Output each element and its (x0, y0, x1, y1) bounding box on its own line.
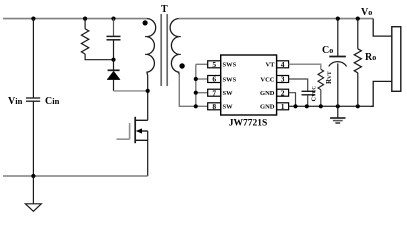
wire diode anode lead (113, 80, 115, 91)
connector output port (392, 27, 401, 92)
capacitor Cin (26, 98, 40, 101)
op-amp U1 IC JW7721S body (221, 55, 277, 115)
wire connector bottom to gnd rail (370, 81, 391, 106)
capacitor C snubber (107, 36, 121, 39)
node junction bus pin6 (194, 77, 198, 81)
wire pin2 down to gnd rail (289, 93, 296, 107)
svg-text:4: 4 (281, 60, 285, 69)
capacitor Co polarized (329, 57, 347, 67)
wire SW bus vertical (195, 64, 197, 106)
svg-text:Ro: Ro (365, 52, 376, 63)
wire CVCC bottom lead (307, 95, 309, 106)
wire stub pin5 (196, 63, 208, 65)
pin 7 box (208, 89, 221, 96)
resistor Ro (354, 49, 361, 73)
pin 4 box (277, 61, 289, 68)
wire pin3 to CVCC (289, 79, 308, 91)
wire secondary bottom descent (179, 74, 196, 106)
svg-text:JW7721S: JW7721S (229, 118, 268, 128)
node polarity dot primary (143, 20, 148, 25)
wire stub pin6 (196, 78, 208, 80)
wire snubber R top lead (84, 19, 86, 29)
ground primary (25, 176, 41, 211)
node junction Co top (336, 17, 340, 21)
node junction snubber C on top rail (111, 17, 115, 21)
transformer T secondary winding (170, 19, 181, 75)
node junction Co gnd (336, 104, 340, 108)
node polarity dot secondary (179, 63, 184, 68)
wire primary bottom to switch node (147, 75, 149, 120)
transformer T primary winding (145, 19, 156, 76)
capacitor CVCC (302, 91, 316, 95)
wire Co top lead (337, 19, 339, 56)
node junction bottom rail Cin (31, 174, 35, 178)
node junction RC (111, 58, 115, 62)
diode D clamp (107, 70, 120, 79)
wire GND rail right (289, 105, 371, 107)
wire Ro bottom lead (357, 73, 359, 107)
pin 1 box (277, 103, 289, 110)
wire RVT bottom lead (320, 90, 322, 107)
wire top rail left (Vin+ to transformer primary) (3, 18, 147, 20)
node junction Ro top (356, 17, 360, 21)
svg-text:1: 1 (281, 102, 285, 111)
svg-text:SWS: SWS (223, 76, 237, 83)
wire Cin branch lower (32, 102, 34, 176)
svg-text:VCC: VCC (260, 76, 274, 83)
svg-text:Cin: Cin (45, 96, 60, 107)
svg-text:6: 6 (212, 75, 216, 84)
wire stub pin7 (196, 92, 208, 94)
svg-text:2: 2 (281, 88, 285, 97)
node junction pin2 gnd (293, 104, 297, 108)
wire diode to switch node (114, 90, 148, 92)
wire snubber C top lead (113, 19, 115, 36)
transformer core (161, 14, 167, 86)
node junction Cin on top rail (31, 17, 35, 21)
node junction bus pin8 (194, 104, 198, 108)
node junction bus pin7 (194, 91, 198, 95)
svg-text:5: 5 (212, 60, 216, 69)
svg-text:8: 8 (212, 102, 216, 111)
pin 6 box (208, 76, 221, 83)
wire bottom rail left (3, 175, 148, 177)
wire pin4 to RVT (289, 64, 321, 69)
ground secondary (330, 106, 345, 123)
wire snubber R bottom lead (85, 54, 113, 60)
svg-text:Vo: Vo (361, 7, 372, 18)
node junction Ro gnd (356, 104, 360, 108)
resistor RVT (318, 69, 324, 89)
pin 2 box (277, 89, 289, 96)
svg-text:SW: SW (223, 90, 234, 97)
node junction RVT gnd (319, 104, 323, 108)
wire top rail right (secondary to Vo) (179, 18, 373, 20)
svg-text:SWS: SWS (223, 62, 237, 69)
wire Co bottom lead (337, 63, 339, 106)
svg-text:VT: VT (265, 62, 275, 69)
svg-text:SW: SW (223, 104, 234, 111)
svg-text:7: 7 (212, 88, 216, 97)
resistor R snubber (81, 29, 88, 54)
node junction switch node (146, 89, 150, 93)
svg-text:RVT: RVT (325, 71, 333, 84)
svg-text:CVCC: CVCC (310, 86, 317, 102)
transistor Q1 MOSFET (117, 117, 148, 176)
svg-text:Co: Co (322, 45, 333, 56)
svg-text:GND: GND (260, 90, 275, 97)
pin 5 box (208, 61, 221, 68)
node junction snubber R on top rail (83, 17, 87, 21)
wire snubber C bottom lead (113, 40, 115, 60)
svg-text:GND: GND (260, 104, 275, 111)
wire Ro top lead (357, 19, 359, 49)
pin 8 box (208, 103, 221, 110)
wire diode cathode lead (113, 60, 115, 70)
pin 3 box (277, 76, 289, 83)
svg-text:T: T (161, 4, 168, 15)
svg-text:Vin: Vin (8, 96, 23, 107)
svg-text:3: 3 (281, 75, 285, 84)
wire Vo rail to connector top (373, 19, 392, 36)
wire stub pin8 (196, 105, 208, 107)
wire Cin branch upper (32, 19, 34, 98)
node junction CVCC gnd (305, 104, 309, 108)
